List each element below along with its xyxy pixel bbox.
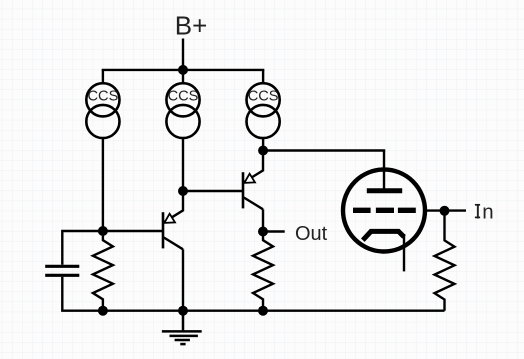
junction dot R2 ground bbox=[258, 306, 268, 316]
resistor R3 bbox=[435, 211, 455, 311]
wire node B to Q2 base bbox=[183, 190, 243, 192]
ground symbol bbox=[162, 311, 202, 344]
junction dot node B bbox=[178, 186, 188, 196]
wire B+ lead bbox=[182, 39, 184, 70]
triode V1 grid bbox=[353, 208, 416, 213]
junction dot top rail bbox=[178, 65, 188, 75]
wire node C to anode bbox=[263, 149, 385, 151]
resistor R2 bbox=[253, 232, 273, 311]
svg-text:In: In bbox=[475, 200, 495, 223]
junction dot node C bbox=[258, 146, 268, 156]
junction dot node A bbox=[98, 226, 108, 236]
junction dot In node bbox=[440, 206, 450, 216]
svg-text:CCS: CCS bbox=[87, 89, 118, 105]
transistor Q2 bbox=[243, 151, 263, 210]
svg-text:CCS: CCS bbox=[168, 89, 199, 105]
svg-text:B+: B+ bbox=[175, 10, 208, 40]
label In bbox=[475, 200, 495, 223]
junction dot ground bbox=[178, 306, 188, 316]
current source CCS2 bbox=[166, 70, 199, 138]
capacitor C1 bbox=[45, 266, 79, 275]
current source CCS3 bbox=[247, 70, 280, 138]
svg-text:CCS: CCS bbox=[248, 89, 279, 105]
triode V1 cathode bbox=[363, 231, 404, 271]
wire CCS1 to node A bbox=[102, 138, 104, 231]
wire CCS2 to node B bbox=[182, 138, 184, 191]
wire node A to capacitor bbox=[62, 231, 103, 265]
current source CCS1 bbox=[86, 70, 119, 138]
junction dot R1 ground bbox=[98, 306, 108, 316]
svg-text:Out: Out bbox=[295, 223, 328, 245]
wire Q1 collector to ground rail bbox=[182, 249, 184, 310]
wire ground rail bbox=[103, 310, 445, 312]
wire Out stub bbox=[263, 230, 285, 232]
transistor Q1 bbox=[163, 191, 183, 249]
wire node A to Q1 base bbox=[103, 230, 163, 232]
wire top rail bbox=[102, 69, 265, 71]
wire grid to In node bbox=[427, 209, 467, 211]
wire Q2 collector to Out node bbox=[262, 209, 264, 231]
wire CCS3 to node C bbox=[262, 138, 264, 151]
triode V1 anode bbox=[367, 151, 402, 191]
junction dot Out node bbox=[258, 227, 268, 237]
resistor R1 bbox=[93, 231, 113, 311]
triode V1 envelope bbox=[343, 170, 425, 252]
wire capacitor to ground rail bbox=[62, 277, 103, 311]
